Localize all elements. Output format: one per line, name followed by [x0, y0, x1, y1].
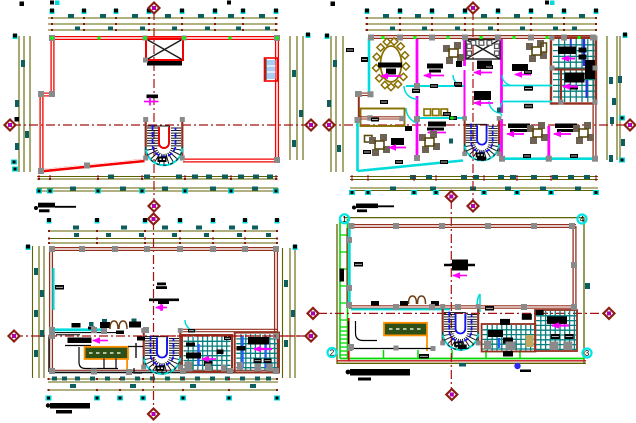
TR corridor cyan walls [406, 85, 464, 87]
BL toilet room 2 grid [236, 334, 277, 371]
BR maroon right wall [572, 226, 574, 309]
TR hatched service room border [551, 38, 596, 104]
BL toilet1 desks [186, 343, 195, 347]
TL elevator black sill [147, 61, 182, 66]
TR conference laptops [378, 63, 402, 68]
BR green conference table [384, 323, 427, 336]
BR horizontal centerline [318, 312, 611, 314]
TR left dimension lines [330, 36, 332, 172]
TL wall corner columns [49, 35, 55, 41]
BL cyan inner left wall [52, 268, 54, 310]
TR magenta partition x549 [547, 126, 550, 158]
svg-text:1: 1 [342, 215, 347, 224]
BL door arc [185, 320, 196, 331]
TL window on right wall [265, 58, 278, 81]
BR cyan bottom inner band [351, 308, 450, 310]
BR vertical centerline [450, 200, 452, 390]
TR service room lower desk [565, 73, 585, 83]
svg-text:2: 2 [330, 349, 335, 358]
TL elevator shaft box [146, 39, 183, 61]
BL hatched toilet room 2 border [235, 333, 279, 373]
TR bottom axis markers [349, 190, 355, 195]
TL wall axis green dots [51, 37, 54, 40]
BR orange partition [426, 336, 428, 352]
TR bottom dimension lines [350, 176, 598, 178]
BL bottom dimension lines [48, 378, 278, 380]
svg-text:4: 4 [580, 215, 585, 224]
TR hatched service room grid [553, 39, 595, 102]
BL upper room labels [55, 285, 64, 290]
TL top axis markers [50, 9, 55, 14]
BL bottom wall [49, 371, 277, 373]
TL bottom axis markers [36, 189, 42, 194]
BR green boundary bottom [340, 358, 584, 360]
BR centerline diamonds [446, 191, 457, 202]
TR room B cluster [526, 43, 533, 50]
TR label on left wall [361, 57, 368, 62]
BR left section blue strip [498, 338, 500, 348]
TR reception desk olive [361, 109, 405, 127]
TR magenta partition x502 [500, 39, 503, 113]
TR service room blue strips [583, 39, 585, 66]
BR queue path lines [349, 321, 397, 349]
TR cyan door arcs [404, 86, 417, 99]
BR maroon top wall [349, 224, 576, 226]
BL stair [141, 328, 183, 374]
TR wall text labels [346, 48, 354, 52]
TR cyan bottom wall right [500, 157, 596, 160]
TR service room right cabinet [585, 60, 595, 79]
TR room E cluster [508, 124, 530, 129]
BR furniture row tables [371, 301, 379, 306]
TL bottom dimension lines [37, 176, 278, 178]
TR top dimension lines [365, 17, 596, 19]
BL orange partition line [126, 359, 128, 372]
TL red wall jog [40, 92, 53, 94]
TR stair [462, 116, 501, 160]
TR corridor right cyan walls [502, 85, 552, 87]
TL centerline diamonds [149, 3, 160, 14]
BL maroon right wall [274, 249, 276, 372]
BL maroon left wall [49, 248, 51, 372]
TL title text [38, 203, 55, 208]
BR boundary right olive line [583, 218, 585, 364]
BL right dimension lines [282, 248, 284, 378]
TR vertical centerline [472, 11, 474, 202]
svg-text:3: 3 [585, 349, 590, 358]
TL center section marker [147, 95, 159, 99]
TL horizontal centerline [12, 124, 309, 126]
TR service room upper desk [558, 47, 576, 55]
BR green boundary left ladder [339, 218, 341, 359]
BL toilet1 blue strip [197, 344, 199, 366]
BL cyan counter band [55, 328, 107, 331]
BL green conference table [85, 347, 128, 359]
BR stair label [458, 345, 467, 350]
BR cyan left wall [348, 228, 350, 307]
TR cyan left wall lower [356, 121, 359, 171]
TR reception wall [358, 116, 403, 118]
BR middle beige fixtures [526, 335, 534, 347]
BR hatched left section grid [483, 325, 535, 351]
TR maroon right wall [592, 37, 594, 159]
BR cyan door arc [477, 294, 480, 312]
BL vertical centerline [153, 221, 155, 410]
BR teal tick [459, 363, 466, 367]
TL right dimension lines [289, 36, 291, 160]
BL toilet2 desks [248, 337, 269, 345]
BL title text [50, 403, 90, 409]
TR meeting table with X [466, 40, 500, 60]
BR boundary top olive line [344, 217, 584, 219]
BR maroon bottom wall [349, 305, 576, 307]
BL maroon top wall [50, 247, 277, 249]
TR conference table [381, 46, 402, 82]
BL hatched toilet room 1 border [182, 335, 232, 372]
BR stair [440, 304, 480, 350]
TR meeting chairs [471, 41, 476, 46]
TR room C desk [428, 122, 446, 127]
TR title text [356, 204, 378, 209]
BR axis circle 3 [583, 349, 592, 358]
BR plus table [444, 264, 475, 266]
BR left section desks [488, 330, 503, 337]
TL red left wall lower [39, 94, 41, 171]
BR title text [350, 369, 410, 376]
BR right section desks [547, 316, 567, 324]
TL red left wall upper [50, 37, 52, 94]
TR small black desks left of partition [456, 61, 462, 67]
TL top dimension lines [48, 17, 278, 19]
BL queue path lines [79, 347, 118, 369]
BR plants [409, 296, 426, 304]
BR wall columns [348, 223, 354, 229]
BL bottom axis markers [46, 396, 52, 401]
TR maroon top wall [368, 35, 596, 37]
TR room F cluster [555, 124, 577, 129]
TR room A chairs [443, 45, 450, 52]
TR stair label [477, 157, 486, 161]
BL interior wall above toilets [183, 328, 277, 330]
TR room B2 desk [474, 91, 491, 100]
BL interior left partition [48, 337, 50, 372]
TL red top wall [51, 36, 278, 38]
BR north symbol [514, 363, 520, 369]
BR olive base line [337, 362, 586, 364]
TR chairs row at corridor [424, 109, 431, 116]
BR axis circle 1 [340, 214, 349, 223]
TR cyan left wall upper [368, 38, 371, 93]
BL centerline overlay [160, 335, 311, 337]
TR cyan slanted bottom wall [358, 161, 464, 172]
TL red right wall [275, 37, 277, 161]
BR right section fixtures [550, 342, 559, 351]
BL toilet2 blue strips [241, 336, 243, 368]
TR right dimension lines [606, 36, 608, 160]
TR wall columns [368, 35, 374, 41]
BR right side teal tick [585, 283, 590, 289]
BL toilet room 1 grid [184, 337, 231, 371]
TR magenta partition x464 [463, 39, 466, 66]
TR horizontal centerline [327, 124, 629, 126]
TR maroon jog wall [358, 95, 360, 119]
TR top edge ticks [331, 2, 336, 7]
BL horizontal centerline [14, 335, 311, 337]
BL wall label [188, 329, 195, 333]
BL centerline diamonds [148, 214, 159, 225]
BR red wall segment lower-left [348, 318, 350, 361]
TL red slanted bottom wall [40, 161, 145, 172]
BR black rects below green line [503, 351, 513, 357]
BR left section fixtures [484, 341, 491, 350]
TR corridor label [449, 116, 457, 120]
BR interior black floor line [396, 348, 433, 350]
TR centerline diamonds [468, 3, 479, 14]
TR magenta partition x417 [416, 39, 419, 83]
TL left dimension lines [18, 36, 20, 172]
BR red base line [337, 360, 586, 362]
BL desk with arrow [68, 338, 92, 344]
TR lower-left room cluster [365, 136, 373, 143]
TR service room columns [550, 36, 555, 41]
TL stair [143, 117, 185, 165]
BR boundary left olive line [336, 224, 338, 364]
BL left dimension lines [32, 246, 34, 378]
BL top axis markers [47, 219, 52, 224]
BR axis circle 4 [578, 215, 587, 224]
BL stair label [137, 337, 145, 341]
TL vertical centerline [153, 11, 155, 202]
TL red bottom wall [183, 158, 278, 160]
BR hatched right section border [535, 310, 577, 351]
BL wall columns [79, 246, 85, 252]
BR hatched right section grid [536, 311, 576, 350]
TR service room divider walls [551, 69, 585, 71]
BR hatched left section border [482, 324, 536, 352]
BL toilet1 fixtures [185, 362, 193, 372]
TR room A desk [427, 64, 443, 69]
BR axis circle 2 [328, 348, 337, 357]
BL furniture row [72, 323, 81, 328]
TL top edge ticks [20, 2, 25, 7]
TR top axis markers [365, 9, 370, 14]
BL top dimension lines [48, 230, 278, 232]
BL toilet2 fixtures [255, 364, 262, 372]
TR desk below meeting table [477, 61, 492, 70]
TR wall axis green dots [382, 36, 385, 39]
BR room labels [354, 262, 363, 267]
